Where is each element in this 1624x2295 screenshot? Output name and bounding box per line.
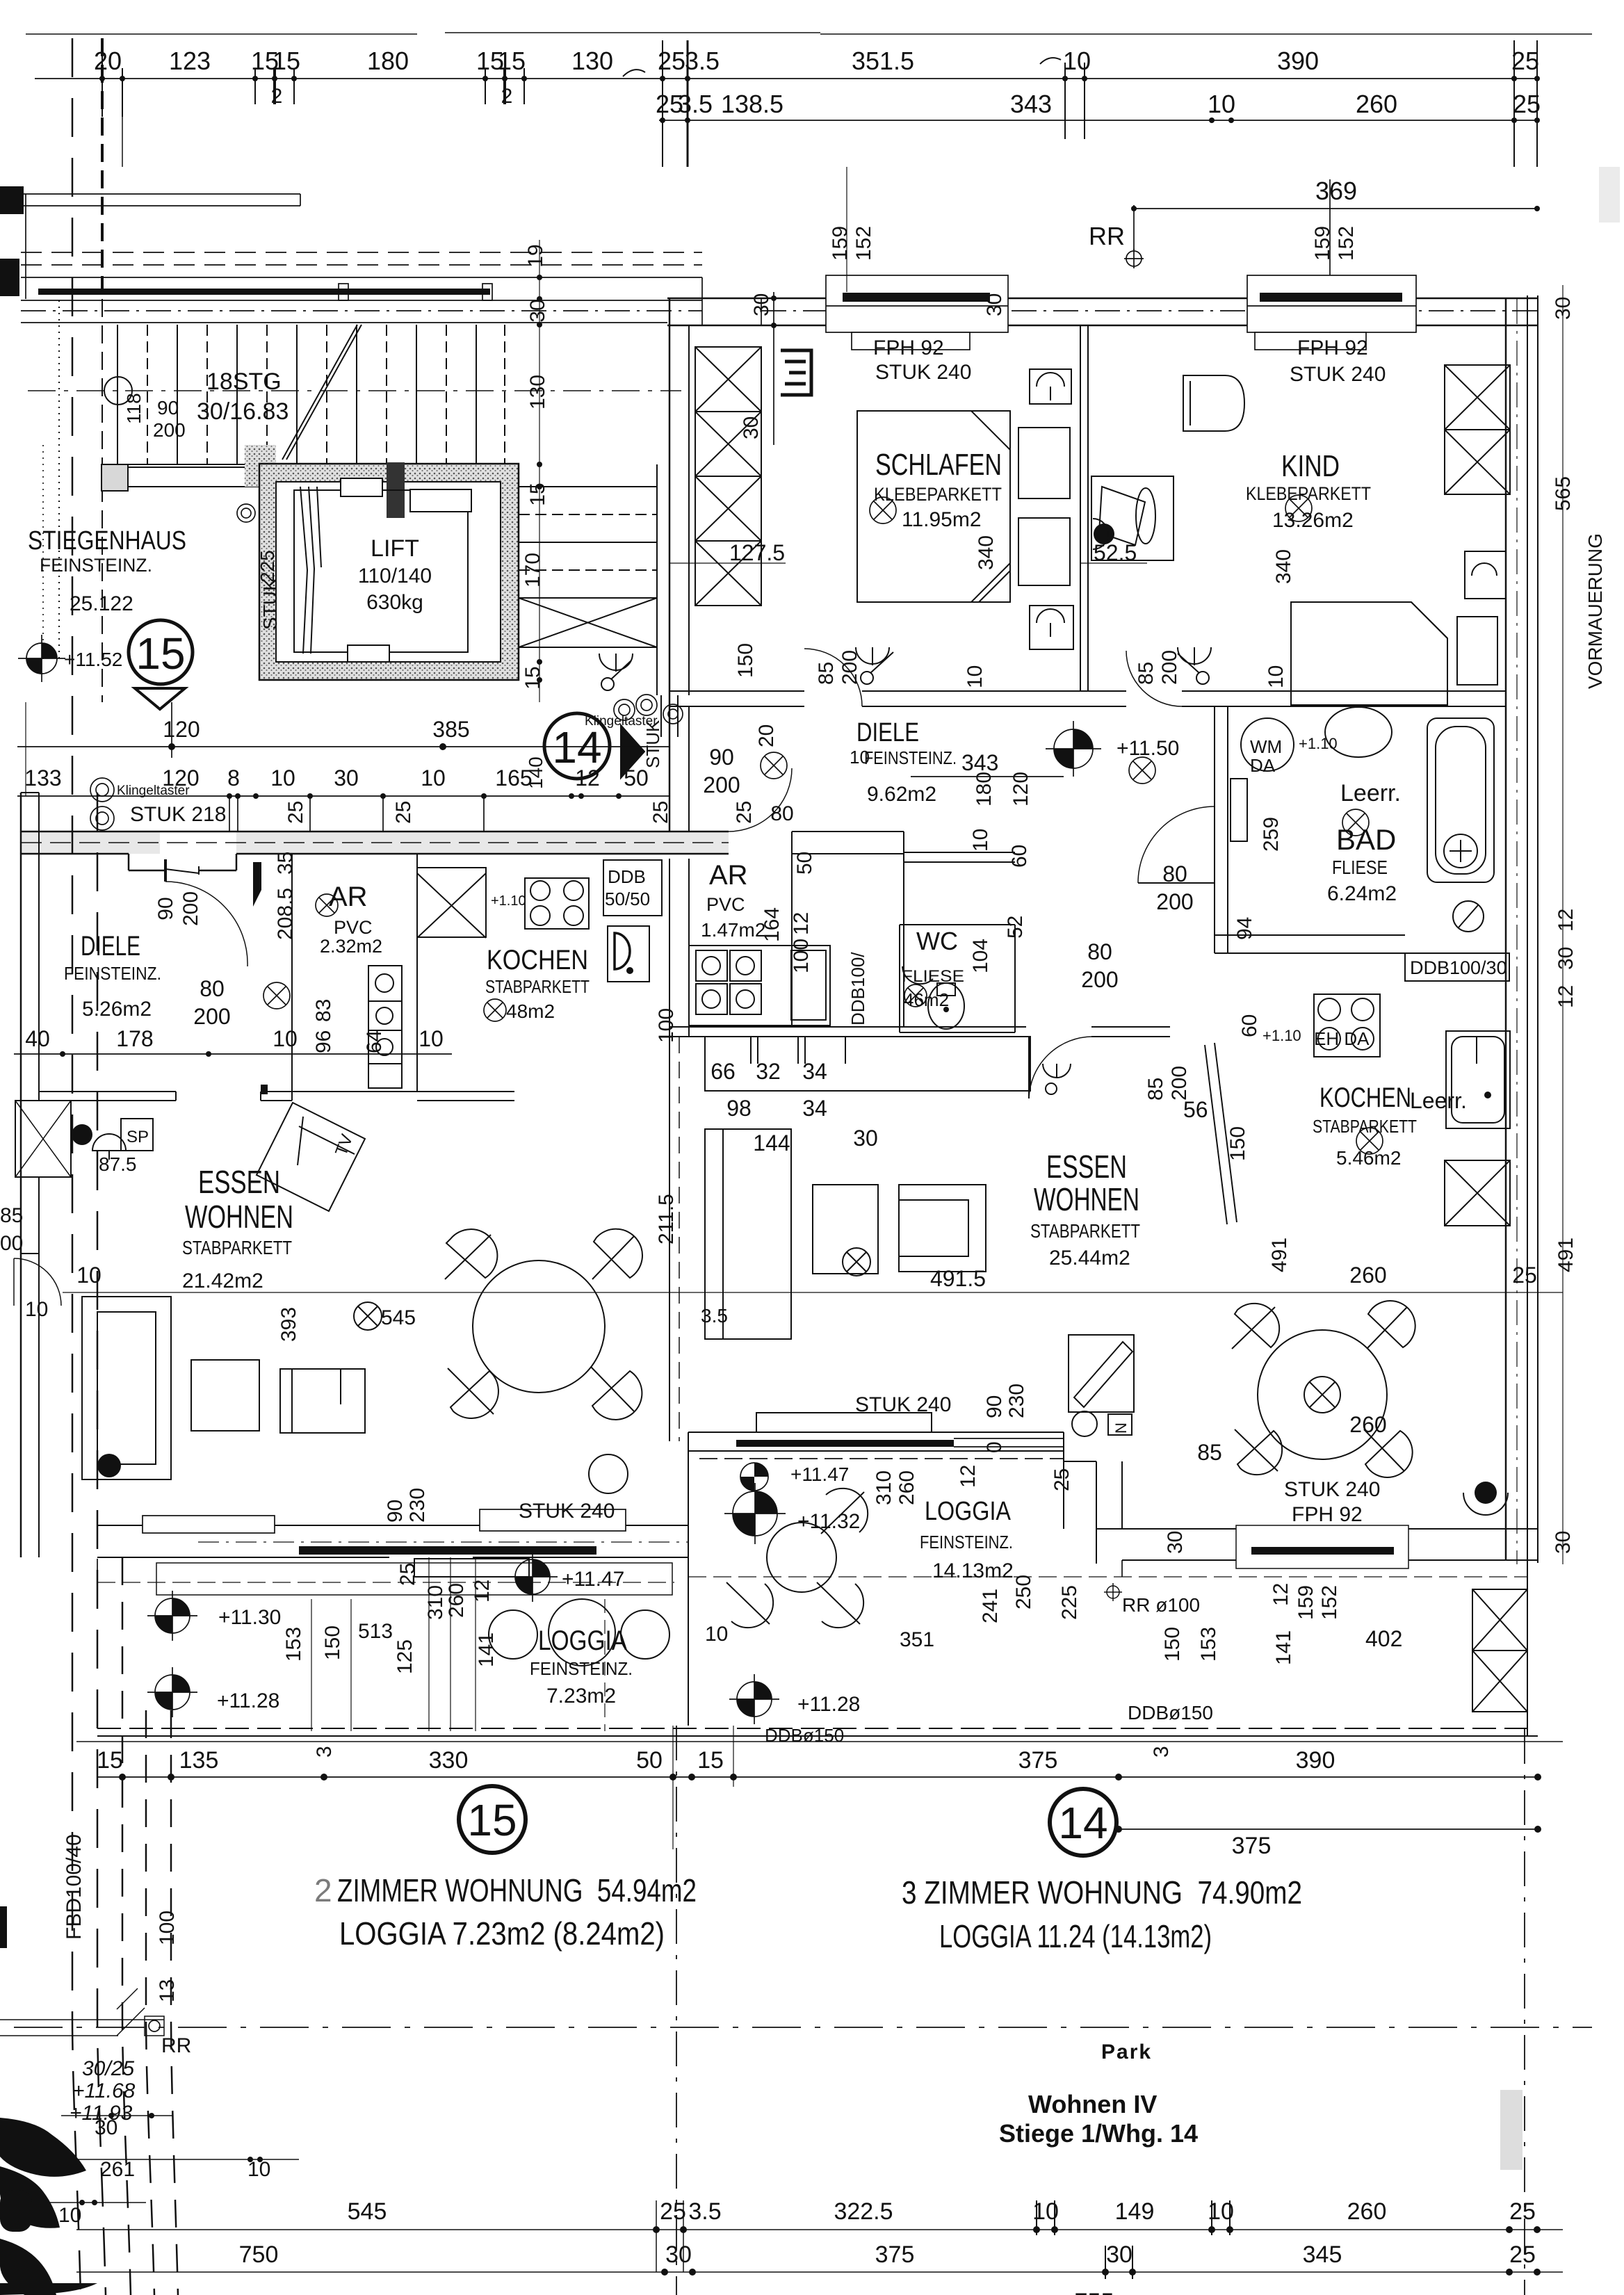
squiggle after 130: [623, 70, 645, 76]
svg-text:90: 90: [709, 745, 734, 770]
svg-text:18STG: 18STG: [206, 368, 282, 395]
circle 14 bottom: [1050, 1789, 1116, 1856]
svg-text:30: 30: [750, 293, 773, 316]
wall corner step near x1010: [701, 277, 703, 325]
svg-text:260: 260: [1356, 90, 1397, 118]
svg-text:STABPARKETT: STABPARKETT: [1313, 1116, 1417, 1137]
svg-text:FPH 92: FPH 92: [1292, 1503, 1363, 1526]
lift shaft stippled walls: [245, 445, 519, 680]
lamp WC: [904, 984, 927, 1007]
svg-text:2: 2: [314, 1872, 332, 1908]
svg-text:2: 2: [501, 85, 513, 108]
svg-text:AR: AR: [709, 860, 748, 891]
cabinet 14: [705, 1129, 791, 1339]
svg-text:34: 34: [802, 1059, 827, 1084]
svg-text:120: 120: [1009, 772, 1032, 806]
loggia14 table group: [767, 1523, 836, 1592]
svg-text:211.5: 211.5: [655, 1194, 678, 1244]
north wall: dashed lines above: [21, 264, 702, 266]
svg-text:200: 200: [1168, 1066, 1191, 1101]
svg-text:VORMAUERUNG: VORMAUERUNG: [1584, 533, 1606, 689]
svg-text:+11.28: +11.28: [797, 1693, 860, 1716]
svg-text:DDB100/: DDB100/: [847, 952, 868, 1025]
RR symbol: [1126, 251, 1142, 266]
svg-text:159: 159: [829, 226, 852, 261]
interior wall under bedrooms y994-1016: [669, 690, 804, 692]
svg-text:750: 750: [239, 2241, 279, 2268]
svg-text:178: 178: [116, 1026, 153, 1051]
lift shaft door dark smear: [387, 462, 405, 518]
svg-text:351: 351: [900, 1628, 934, 1651]
east exterior wall: [1505, 298, 1507, 1560]
svg-text:153: 153: [282, 1627, 305, 1662]
left dim line y1516: [14, 1053, 452, 1055]
washing machine WM: [1241, 718, 1294, 771]
svg-text:200: 200: [179, 891, 202, 926]
lamp BAD: [1342, 809, 1369, 836]
svg-text:WC: WC: [916, 927, 958, 955]
svg-text:159: 159: [1294, 1585, 1317, 1620]
svg-text:170: 170: [521, 553, 544, 587]
svg-text:DDBø150: DDBø150: [1128, 1702, 1213, 1724]
svg-text:3: 3: [1150, 1746, 1173, 1758]
centerline vertical x973 bottom: [676, 1726, 677, 2295]
ink blotches bottom-left: [0, 1906, 97, 2295]
svg-text:+1.10: +1.10: [1299, 735, 1338, 752]
svg-text:343: 343: [1010, 90, 1052, 118]
svg-text:260: 260: [445, 1583, 468, 1618]
svg-text:48m2: 48m2: [506, 1000, 555, 1022]
armchair 15: [280, 1369, 365, 1433]
bottom dim row1 y3207: [76, 2229, 1563, 2230]
svg-text:40: 40: [25, 1026, 50, 1051]
shaft with X left of SCHLAFEN: [695, 347, 761, 606]
svg-text:110/140: 110/140: [358, 565, 432, 587]
svg-text:20: 20: [755, 724, 778, 747]
sofa 14: [899, 1185, 986, 1272]
lamp SCHLAFEN: [870, 497, 896, 524]
svg-text:30: 30: [1106, 2241, 1132, 2268]
DDB100/30 box BAD: [1405, 953, 1509, 981]
56 label: [1183, 1097, 1208, 1122]
svg-text:56: 56: [1183, 1097, 1208, 1122]
corridor wall segments near DIELE14 right: [904, 852, 1015, 853]
svg-text:208.5: 208.5: [274, 888, 297, 940]
svg-text:WOHNEN: WOHNEN: [1034, 1181, 1139, 1217]
svg-text:STABPARKETT: STABPARKETT: [182, 1237, 292, 1258]
svg-text:25: 25: [396, 1563, 419, 1586]
row1 labels: [94, 47, 1539, 108]
svg-text:WOHNEN: WOHNEN: [185, 1199, 293, 1235]
svg-text:1.47m2: 1.47m2: [701, 919, 765, 941]
svg-text:6.24m2: 6.24m2: [1327, 882, 1397, 905]
svg-text:10: 10: [421, 765, 446, 790]
survey marker +11.50: [1046, 721, 1101, 777]
svg-text:15: 15: [273, 47, 300, 75]
svg-text:+11.50: +11.50: [1116, 737, 1179, 760]
row2 labels: [656, 90, 1541, 118]
chairs 14: [1235, 1304, 1279, 1347]
svg-text:120: 120: [163, 717, 200, 742]
dining table 15: [473, 1260, 605, 1393]
door recess at entry apt15: [128, 854, 130, 870]
svg-text:138.5: 138.5: [721, 90, 783, 118]
bench loggia15 window: [414, 1559, 529, 1577]
svg-text:52.5: 52.5: [1094, 540, 1137, 565]
svg-text:14: 14: [1058, 1798, 1107, 1848]
svg-text:10: 10: [1265, 665, 1288, 688]
window W1 (SCHLAFEN): [826, 275, 1008, 350]
svg-text:Leerr.: Leerr.: [1340, 780, 1401, 806]
127.5 / 52.5 dims: [729, 535, 1295, 584]
svg-text:+11.28: +11.28: [217, 1689, 279, 1712]
90/200 door labels: [154, 745, 1194, 1029]
svg-text:N: N: [1112, 1422, 1130, 1434]
svg-text:8: 8: [227, 765, 240, 790]
svg-text:85: 85: [1135, 662, 1158, 685]
svg-text:340: 340: [975, 535, 998, 570]
svg-text:225: 225: [1058, 1585, 1081, 1620]
svg-text:STABPARKETT: STABPARKETT: [485, 976, 590, 997]
door corridor arc near AR14: [729, 768, 792, 832]
343 dim DIELE14: [911, 776, 1064, 777]
survey marker +11.47 (loggia15): [507, 1552, 558, 1602]
KOCHEN14 slanted left wall: [1205, 1045, 1227, 1224]
svg-text:125: 125: [393, 1639, 416, 1674]
loggia15 dim chain labels: [282, 1563, 934, 1674]
lamp AR15: [316, 894, 338, 916]
375 dim line right y2631: [1119, 1828, 1538, 1830]
svg-text:10: 10: [969, 829, 992, 852]
circle 15 top: [129, 620, 193, 684]
svg-text:100: 100: [156, 1911, 179, 1945]
svg-text:LIFT: LIFT: [371, 535, 419, 562]
svg-text:80: 80: [1087, 939, 1112, 964]
svg-text:25: 25: [1509, 2241, 1536, 2268]
svg-text:98: 98: [726, 1096, 752, 1121]
svg-text:13.26m2: 13.26m2: [1272, 509, 1354, 532]
svg-text:LOGGIA: LOGGIA: [925, 1497, 1012, 1526]
svg-text:369: 369: [1315, 177, 1357, 205]
nightstand lamps SCHLAFEN: [1030, 369, 1071, 404]
svg-text:135: 135: [179, 1747, 219, 1774]
survey marker +11.47 (loggia14 top): [740, 1463, 768, 1491]
svg-text:DA: DA: [1250, 755, 1276, 776]
svg-text:10: 10: [419, 1026, 444, 1051]
svg-text:+1.10: +1.10: [491, 893, 526, 909]
door DIELE14->BAD arc: [1138, 806, 1215, 883]
svg-text:30: 30: [1164, 1531, 1187, 1554]
svg-text:375: 375: [1018, 1747, 1058, 1774]
svg-text:85: 85: [1144, 1078, 1167, 1101]
svg-text:390: 390: [1277, 47, 1319, 75]
bathtub: [1427, 718, 1494, 882]
svg-text:100: 100: [790, 939, 813, 973]
svg-text:50: 50: [636, 1747, 663, 1774]
svg-text:85: 85: [0, 1204, 23, 1227]
svg-text:FEINSTEINZ.: FEINSTEINZ.: [64, 963, 161, 984]
svg-text:9.62m2: 9.62m2: [867, 783, 936, 806]
svg-text:12: 12: [957, 1465, 980, 1488]
svg-text:200: 200: [193, 1004, 230, 1029]
WC sink: [902, 966, 933, 984]
door stick symbols under bedroom doors: [599, 647, 1211, 690]
STUK225 left of lift: [123, 393, 663, 789]
svg-text:260: 260: [1347, 2198, 1387, 2225]
svg-text:630kg: 630kg: [366, 591, 423, 614]
wall y1477-1491 under corridor band: [669, 1026, 1026, 1028]
svg-text:15: 15: [467, 1795, 517, 1845]
svg-text:19: 19: [524, 244, 547, 267]
svg-text:200: 200: [838, 650, 861, 685]
svg-text:10: 10: [273, 1026, 298, 1051]
right loggia east edge: [1527, 1560, 1528, 1736]
svg-text:3.5: 3.5: [701, 1305, 728, 1327]
svg-text:402: 402: [1365, 1626, 1402, 1651]
chairs 15: [446, 1229, 497, 1278]
svg-text:90: 90: [983, 1395, 1006, 1418]
faint stipple right bottom: [1500, 2090, 1522, 2170]
svg-text:150: 150: [321, 1625, 344, 1660]
svg-text:FPH 92: FPH 92: [1297, 336, 1368, 359]
Klingeltaster circles apt15: [90, 778, 114, 802]
svg-text:150: 150: [1226, 1126, 1249, 1161]
svg-text:94: 94: [1233, 917, 1256, 940]
svg-text:310: 310: [424, 1585, 447, 1620]
door stick figure: [1043, 1064, 1071, 1078]
svg-text:104: 104: [969, 939, 992, 973]
svg-text:+11.30: +11.30: [218, 1606, 281, 1629]
DDB 50/50 box: [603, 860, 662, 916]
svg-text:85: 85: [815, 662, 838, 685]
svg-text:+11.32: +11.32: [797, 1510, 860, 1533]
svg-text:3.5: 3.5: [688, 2198, 721, 2225]
svg-text:34: 34: [802, 1096, 827, 1121]
svg-text:87.5: 87.5: [99, 1153, 137, 1175]
svg-text:60: 60: [1238, 1014, 1261, 1037]
svg-text:32: 32: [756, 1059, 781, 1084]
E symbol: [781, 350, 811, 395]
desk between SCHLAFEN and KIND: [1091, 476, 1174, 560]
wall between DIELE15/AR15 and wohnen y1570-1583: [39, 1091, 176, 1092]
svg-text:+1.10: +1.10: [1262, 1027, 1301, 1044]
svg-text:STUK 240: STUK 240: [1290, 363, 1386, 386]
stair treads: [117, 325, 505, 464]
svg-text:200: 200: [153, 419, 186, 441]
stairs right of lift (landing): [519, 464, 657, 695]
svg-text:25: 25: [1512, 1263, 1537, 1288]
black dot corner 14: [1475, 1482, 1497, 1504]
svg-text:STABPARKETT: STABPARKETT: [1030, 1220, 1140, 1242]
svg-text:491.5: 491.5: [930, 1266, 986, 1291]
svg-text:25: 25: [1513, 90, 1541, 118]
svg-text:Wohnen IV: Wohnen IV: [1028, 2090, 1157, 2118]
kitchen 15 sink: [608, 926, 649, 982]
svg-text:375: 375: [875, 2241, 915, 2268]
sofa ESSEN WOHNEN 15: [82, 1297, 171, 1479]
entrance arrow apt14: [621, 725, 644, 778]
svg-text:153: 153: [1197, 1627, 1220, 1662]
BAD bottom wall: [1215, 934, 1405, 936]
svg-text:144: 144: [753, 1130, 790, 1155]
svg-text:Stiege 1/Whg. 14: Stiege 1/Whg. 14: [999, 2119, 1198, 2148]
KOCHEN15 right wall at x963 partial w/ opening: [417, 1091, 514, 1092]
svg-text:64: 64: [363, 1030, 386, 1053]
door arcs bedrooms: [804, 649, 862, 706]
svg-text:250: 250: [1012, 1575, 1035, 1609]
loggia14 left edge vertical: [688, 1451, 689, 1726]
svg-text:STUK: STUK: [259, 578, 281, 630]
svg-text:241: 241: [979, 1589, 1002, 1623]
svg-text:141: 141: [1272, 1630, 1295, 1665]
svg-text:393: 393: [277, 1307, 300, 1342]
svg-text:STUK 218: STUK 218: [130, 803, 226, 826]
svg-text:12: 12: [790, 912, 813, 935]
svg-text:130: 130: [526, 375, 549, 409]
circled unit numbers: [129, 620, 1116, 1856]
svg-text:KOCHEN: KOCHEN: [1319, 1082, 1411, 1113]
bed KIND: [1291, 602, 1447, 705]
svg-text:10: 10: [1208, 90, 1235, 118]
dotted guide line left of stairs: [58, 300, 60, 660]
svg-text:15: 15: [697, 1747, 724, 1774]
svg-text:80: 80: [200, 976, 225, 1001]
apartment separation wall x963-991: [669, 298, 671, 832]
svg-text:118: 118: [123, 393, 145, 424]
bottom dim row2 y3268: [76, 2271, 1563, 2273]
survey marker +11.32: [724, 1483, 786, 1544]
main thick wall y1196-1235 left part: [21, 832, 729, 882]
svg-text:80: 80: [770, 802, 793, 825]
svg-text:STUK 240: STUK 240: [519, 1500, 615, 1523]
AR14 side walls: [791, 832, 793, 1027]
svg-text:+11.52: +11.52: [64, 649, 122, 670]
svg-text:KLEBEPARKETT: KLEBEPARKETT: [1246, 483, 1371, 504]
kitchen 14 sink: [1446, 1031, 1510, 1128]
svg-text:STIEGENHAUS: STIEGENHAUS: [28, 526, 186, 555]
desk chair: [1183, 375, 1244, 431]
svg-text:FLIESE: FLIESE: [1332, 857, 1388, 878]
left-bottom small dims: [58, 1834, 270, 2227]
dim line A y1074: [17, 746, 669, 747]
svg-text:RR ø100: RR ø100: [1122, 1594, 1200, 1616]
parapet below apt14 wall: [1121, 1560, 1123, 1577]
svg-text:12: 12: [1554, 985, 1577, 1008]
svg-text:KIND: KIND: [1281, 449, 1340, 483]
washbasin BAD: [1325, 707, 1392, 757]
svg-text:52: 52: [1004, 916, 1027, 939]
svg-text:7.23m2: 7.23m2: [546, 1685, 616, 1708]
svg-text:545: 545: [381, 1306, 416, 1329]
svg-text:25: 25: [733, 801, 756, 824]
svg-text:3: 3: [313, 1746, 336, 1758]
svg-text:13: 13: [156, 1979, 179, 2002]
kitchen 15 hob (EH): [525, 878, 589, 929]
svg-text:66: 66: [710, 1059, 736, 1084]
svg-text:12: 12: [575, 765, 600, 790]
svg-text:FEINSTEINZ.: FEINSTEINZ.: [864, 747, 957, 768]
kitchen 14 hob: [1314, 994, 1380, 1057]
svg-text:345: 345: [1303, 2241, 1342, 2268]
svg-text:390: 390: [1296, 1747, 1335, 1774]
circle 15 bottom: [459, 1786, 526, 1853]
row1 ticks: [102, 40, 1537, 167]
svg-text:RR: RR: [161, 2034, 191, 2057]
lift folding door squiggle: [300, 487, 321, 654]
survey marker +11.52: [18, 635, 65, 682]
svg-text:130: 130: [571, 47, 613, 75]
svg-text:2.32m2: 2.32m2: [320, 936, 382, 957]
counter 14: [705, 1037, 1030, 1091]
svg-text:230: 230: [1005, 1384, 1028, 1418]
window W2 (KIND): [1247, 275, 1416, 350]
svg-text:DDB100/30: DDB100/30: [1410, 957, 1507, 978]
svg-text:15: 15: [498, 47, 526, 75]
west exterior wall apt15: [20, 793, 22, 1557]
85 / 260 labels essen14: [1163, 1412, 1386, 1642]
svg-text:11.95m2: 11.95m2: [902, 508, 982, 531]
BAD left wall: [1214, 706, 1215, 953]
svg-text:385: 385: [432, 717, 469, 742]
top-left corner hatch block: [0, 186, 24, 214]
svg-text:80: 80: [1162, 861, 1187, 886]
svg-text:30: 30: [665, 2241, 692, 2268]
window boxes on south wall 15: [143, 1516, 275, 1533]
svg-text:351.5: 351.5: [852, 47, 914, 75]
lift cab: [294, 490, 468, 652]
svg-text:149: 149: [1115, 2198, 1155, 2225]
svg-text:25: 25: [1511, 47, 1539, 75]
svg-text:20: 20: [94, 47, 122, 75]
svg-text:21.42m2: 21.42m2: [182, 1270, 263, 1292]
circle 14 top: [544, 713, 610, 779]
svg-text:200: 200: [1156, 889, 1193, 914]
small circle landing: [237, 504, 255, 522]
loggia14 shelf blinds: [1069, 1335, 1134, 1412]
svg-text:PVC: PVC: [706, 894, 745, 915]
top margin scan line: [26, 33, 1592, 34]
desk lamp bell: [1099, 487, 1145, 545]
svg-text:755: 755: [1075, 2289, 1114, 2295]
svg-text:164: 164: [761, 907, 783, 942]
svg-text:60: 60: [1008, 845, 1031, 868]
left window X-box in west wall: [15, 1101, 71, 1177]
svg-text:30: 30: [526, 299, 549, 322]
svg-text:200: 200: [1158, 650, 1181, 685]
svg-text:12: 12: [1554, 909, 1577, 932]
18STG label: [197, 368, 289, 425]
svg-text:260: 260: [1349, 1263, 1386, 1288]
lamp KIND: [1285, 495, 1312, 521]
svg-text:180: 180: [367, 47, 409, 75]
svg-text:159: 159: [1311, 226, 1334, 261]
svg-text:FBD100/40: FBD100/40: [63, 1834, 86, 1940]
svg-text:+11.47: +11.47: [790, 1463, 849, 1485]
svg-text:Park: Park: [1101, 2041, 1152, 2063]
svg-text:DDB: DDB: [608, 866, 646, 887]
svg-text:513: 513: [358, 1620, 393, 1643]
svg-text:ESSEN: ESSEN: [198, 1164, 280, 1200]
door apt14 entry (in sep wall): [660, 695, 662, 737]
svg-text:ESSEN: ESSEN: [1046, 1149, 1127, 1185]
vertical dim chain x776: [539, 240, 540, 702]
svg-text:180: 180: [973, 772, 996, 806]
north wall right segment over bedrooms: [667, 298, 1538, 300]
svg-text:225: 225: [257, 550, 278, 583]
top-left thin band above wall: [21, 193, 300, 195]
svg-text:FEINSTEINZ.: FEINSTEINZ.: [920, 1532, 1013, 1552]
svg-text:5.46m2: 5.46m2: [1336, 1147, 1401, 1169]
